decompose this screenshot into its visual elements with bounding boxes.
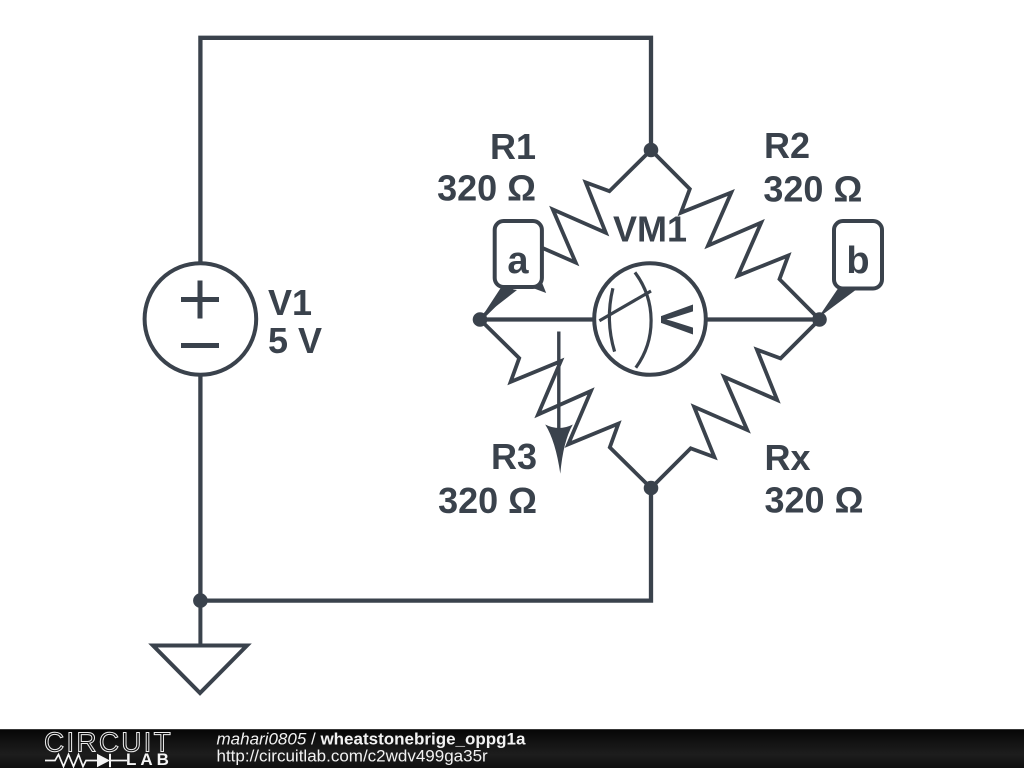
resistor R2	[651, 150, 820, 320]
footer bar	[0, 729, 1024, 768]
svg-text:320 Ω: 320 Ω	[765, 480, 864, 521]
node a junction dot	[473, 312, 488, 327]
wire bottom return: ground junction to bridge bottom	[200, 488, 651, 601]
svg-text:Rx: Rx	[765, 437, 811, 478]
svg-text:V1: V1	[268, 282, 312, 323]
CircuitLab logo: resistor-diode squiggle	[45, 755, 97, 767]
svg-text:b: b	[846, 240, 869, 282]
voltage source V1	[145, 263, 257, 375]
voltmeter VM1	[594, 263, 706, 375]
svg-text:VM1: VM1	[613, 209, 687, 250]
node b flag	[818, 221, 882, 318]
top node dot	[644, 143, 659, 158]
svg-text:R1: R1	[490, 126, 536, 167]
bottom node dot	[644, 481, 659, 496]
svg-text:a: a	[507, 240, 529, 282]
variable-resistor arrow on R3	[545, 332, 573, 474]
svg-text:V: V	[651, 304, 703, 335]
wire node a to voltmeter	[480, 317, 600, 321]
wire voltmeter to node b	[700, 317, 820, 321]
svg-text:R2: R2	[764, 125, 810, 166]
wire top-left loop: V1 top to bridge top	[200, 38, 651, 264]
wire V1 bottom to ground junction	[198, 374, 202, 600]
svg-text:320 Ω: 320 Ω	[763, 169, 862, 210]
ground	[153, 601, 247, 693]
svg-text:LAB: LAB	[126, 750, 173, 768]
CircuitLab logo: diode	[97, 754, 110, 767]
resistor R3	[480, 320, 651, 489]
svg-text:5 V: 5 V	[268, 320, 322, 361]
svg-text:320 Ω: 320 Ω	[438, 480, 537, 521]
svg-text:R3: R3	[491, 436, 537, 477]
node b junction dot	[812, 312, 827, 327]
resistor Rx	[651, 320, 820, 489]
node a flag	[481, 221, 542, 318]
svg-text:http://circuitlab.com/c2wdv499: http://circuitlab.com/c2wdv499ga35r	[217, 747, 489, 766]
resistor R1	[480, 150, 651, 320]
ground junction dot	[193, 593, 208, 608]
svg-text:320 Ω: 320 Ω	[437, 168, 536, 209]
